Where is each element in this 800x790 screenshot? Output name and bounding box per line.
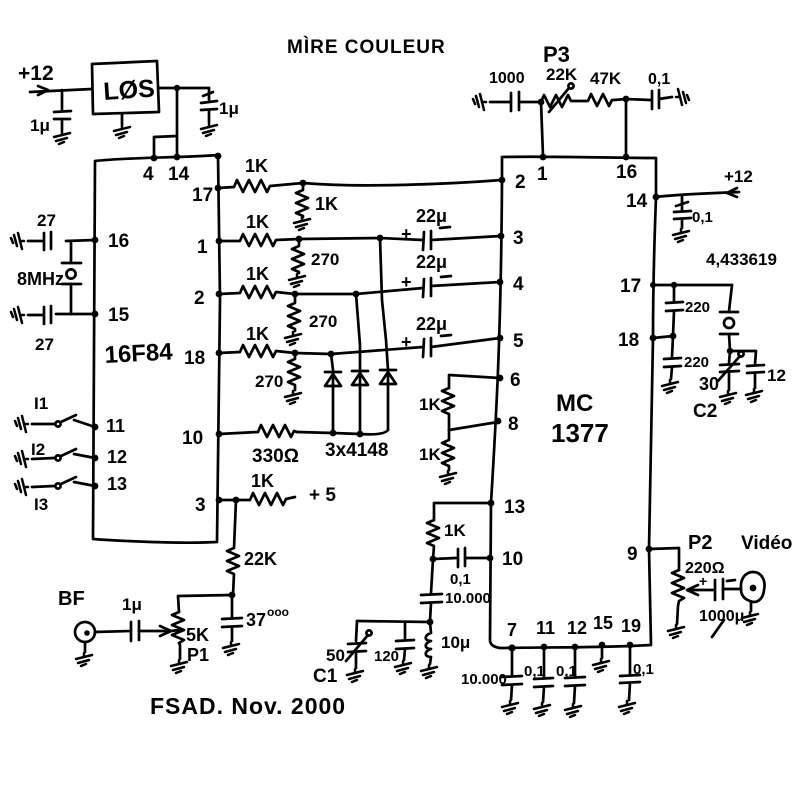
svg-text:12: 12 [567, 618, 587, 638]
wire row18 [295, 353, 331, 354]
resistor 270 vertical [288, 353, 300, 390]
crystal X1 8MHz [62, 262, 81, 265]
svg-text:10μ: 10μ [441, 633, 470, 652]
pin 14 [174, 154, 181, 161]
pin 15 [599, 642, 606, 649]
resistor 1K to +5 [236, 493, 295, 505]
svg-text:22μ: 22μ [416, 206, 447, 226]
node bottom [427, 619, 434, 626]
svg-text:120: 120 [374, 648, 399, 665]
svg-text:BF: BF [58, 588, 85, 610]
+12 input wire with arrow [30, 89, 92, 92]
svg-text:1K: 1K [444, 521, 466, 540]
svg-text:270: 270 [255, 372, 283, 391]
pin 1 [216, 238, 223, 245]
svg-text:17: 17 [192, 185, 213, 206]
svg-text:0,1: 0,1 [450, 571, 471, 588]
svg-text:1μ: 1μ [122, 595, 142, 614]
svg-text:8: 8 [508, 414, 519, 435]
svg-text:12: 12 [767, 366, 786, 385]
node row2 a [292, 291, 299, 298]
resistor 270 vertical [292, 239, 304, 273]
node top right corner [215, 153, 222, 160]
IC U3 MC1377 box [490, 157, 656, 648]
svg-text:9: 9 [627, 544, 638, 565]
capacitor 1u (output) [201, 88, 217, 122]
svg-text:27: 27 [35, 335, 54, 354]
pin 11 [92, 424, 99, 431]
capacitor 10.000 (pin7) [502, 648, 522, 700]
svg-text:11: 11 [106, 416, 125, 436]
node row2 b [353, 291, 360, 298]
node row18 b [328, 351, 335, 358]
svg-text:0,1: 0,1 [648, 71, 670, 88]
svg-text:1: 1 [197, 237, 208, 258]
svg-text:FSAD. Nov. 2000: FSAD. Nov. 2000 [150, 693, 346, 719]
svg-text:10: 10 [502, 549, 523, 570]
svg-text:I1: I1 [34, 394, 48, 413]
svg-text:+: + [699, 573, 707, 589]
svg-text:270: 270 [309, 312, 337, 331]
pin 2 [499, 177, 506, 184]
svg-text:7: 7 [507, 620, 517, 640]
svg-text:16F84: 16F84 [104, 338, 174, 369]
svg-text:+: + [401, 272, 412, 292]
pin 1 [540, 154, 547, 161]
resistor 1K (pin6) [442, 388, 454, 430]
svg-text:P2: P2 [688, 532, 712, 554]
node row1 a [296, 236, 303, 243]
wire to P1 [178, 595, 232, 612]
wire P3 to pin1 [541, 102, 543, 156]
svg-text:3x4148: 3x4148 [325, 440, 388, 461]
resistor 1K vertical to gnd [296, 183, 308, 217]
svg-text:16: 16 [616, 162, 637, 183]
svg-text:0,1: 0,1 [633, 661, 654, 678]
svg-text:22K: 22K [244, 549, 277, 569]
svg-text:12: 12 [107, 447, 127, 467]
pin 14 [653, 194, 660, 201]
node row1 b [377, 235, 384, 242]
capacitor 0,1 (P3) [626, 90, 672, 109]
wire pin6 [449, 375, 500, 388]
wire pin16 [66, 240, 95, 241]
svg-text:220: 220 [685, 299, 710, 316]
svg-text:1K: 1K [251, 471, 274, 491]
svg-text:ooo: ooo [267, 605, 289, 619]
pin 4 [151, 155, 158, 162]
svg-text:MC: MC [556, 390, 593, 417]
capacitor 0,1 (pin19) [620, 645, 640, 700]
node d1 bottom [330, 430, 337, 437]
svg-text:LØS: LØS [102, 74, 155, 106]
row pin1: resistor 1K [219, 234, 299, 246]
svg-text:+ 5: + 5 [309, 485, 336, 506]
svg-text:15: 15 [108, 305, 130, 326]
svg-text:5: 5 [513, 331, 524, 352]
label 4,433619 [706, 250, 777, 269]
pin 17 [650, 282, 656, 288]
ground (pin15) [601, 645, 604, 658]
ground (P3 right) [676, 89, 689, 105]
svg-text:0,1: 0,1 [524, 663, 545, 680]
svg-text:P3: P3 [543, 42, 570, 67]
svg-text:22K: 22K [546, 65, 578, 84]
regulator U2 L05 box [92, 61, 159, 114]
pin 11 [541, 644, 548, 651]
node pin18/220 [670, 333, 677, 340]
wire left from node [357, 621, 430, 622]
svg-text:4: 4 [513, 274, 524, 295]
wire pin10 row [219, 432, 258, 434]
potentiometer P1 5K [172, 612, 184, 659]
crystal X2 4,43 [720, 285, 738, 312]
node L05 out [174, 85, 180, 91]
capacitor 22u (pin5) [416, 314, 447, 334]
svg-text:8MHz: 8MHz [17, 269, 64, 289]
svg-text:1K: 1K [245, 156, 268, 176]
potentiometer P2 220 [672, 570, 684, 624]
node 22K bottom [229, 592, 236, 599]
svg-text:15: 15 [593, 613, 613, 633]
capacitor 1u (input) [54, 90, 71, 130]
svg-text:5K: 5K [186, 625, 209, 645]
wire P3 to pin16 [625, 99, 628, 157]
svg-text:13: 13 [504, 497, 525, 518]
ground (27p bottom) [11, 307, 24, 323]
resistor 270 vertical [288, 294, 300, 331]
svg-text:MÌRE COULEUR: MÌRE COULEUR [287, 36, 446, 58]
wire crystal top [70, 241, 73, 263]
ground (regulator) [121, 114, 124, 124]
svg-text:22μ: 22μ [416, 314, 447, 334]
BF connector [58, 588, 85, 610]
wiper arrow P2 [687, 585, 713, 595]
pin 13 [92, 483, 99, 490]
svg-text:1K: 1K [246, 264, 269, 284]
svg-text:270: 270 [311, 250, 339, 269]
pin 6 [497, 375, 504, 382]
svg-text:4,433619: 4,433619 [706, 250, 777, 269]
pin 17 [215, 185, 222, 192]
svg-text:14: 14 [626, 191, 648, 212]
pin 12 [92, 455, 99, 462]
wire pin14 +12 [656, 192, 739, 197]
wire pin9 [649, 548, 679, 570]
svg-text:1: 1 [537, 164, 548, 185]
pin 16 [623, 154, 630, 161]
wire to pin8 [449, 422, 498, 430]
svg-text:0,1: 0,1 [692, 209, 713, 226]
capacitor 0,1 (pin14) [674, 196, 691, 228]
svg-text:13: 13 [107, 474, 127, 494]
potentiometer P3 22K [541, 95, 576, 107]
svg-text:10.000: 10.000 [461, 671, 507, 688]
svg-text:1K: 1K [246, 324, 269, 344]
svg-text:2: 2 [515, 172, 526, 193]
svg-text:I2: I2 [31, 440, 45, 459]
row pin2: resistor 1K [219, 286, 295, 298]
capacitor 220 (upper) [666, 285, 683, 336]
svg-text:10.000: 10.000 [445, 590, 491, 607]
diode D3 4148 [380, 370, 396, 430]
capacitor 27p top [28, 232, 51, 250]
capacitor 12 [730, 351, 764, 388]
wire row1 [299, 238, 380, 239]
capacitor 37000 [222, 595, 242, 641]
svg-text:6: 6 [510, 370, 521, 391]
svg-text:1μ: 1μ [219, 99, 239, 118]
svg-text:19: 19 [621, 616, 641, 636]
pin 16 [92, 237, 99, 244]
svg-text:18: 18 [618, 330, 639, 351]
P3 section [543, 42, 570, 67]
svg-text:+12: +12 [18, 62, 54, 85]
svg-text:1377: 1377 [551, 418, 609, 448]
pin 19 [627, 642, 634, 649]
svg-text:50: 50 [326, 646, 345, 665]
wire arrow into P1 [139, 626, 171, 636]
node d2 bottom [357, 431, 364, 438]
resistor 22K vertical [227, 500, 239, 595]
capacitor 0,1 (pin10) [433, 548, 490, 567]
resistor 1K (pin8) to gnd [442, 430, 454, 470]
svg-text:1K: 1K [315, 194, 338, 214]
wire row2 [295, 293, 356, 296]
vertical wire row18 to diode1 [331, 354, 333, 370]
pin 3 [498, 233, 505, 240]
capacitor 1000 [511, 92, 541, 111]
wire pin17 [653, 284, 732, 287]
svg-text:37: 37 [246, 610, 266, 630]
svg-text:3: 3 [513, 228, 524, 249]
wire to pins 4/14 [176, 88, 179, 157]
capacitor 1u (BF) [95, 621, 139, 641]
+12 input label [18, 62, 54, 85]
resistor 1K (pin13) [427, 520, 439, 559]
capacitor 0,1 (pin12) [565, 647, 585, 703]
svg-text:30: 30 [699, 374, 719, 394]
node P3 left [538, 99, 545, 106]
node 1K/0,1 [430, 556, 437, 563]
row pin18: resistor 1K [219, 345, 295, 357]
IC U1 16F84 box [93, 155, 220, 543]
capacitor 1000u [699, 573, 707, 589]
svg-text:4: 4 [143, 164, 154, 185]
node row17 [300, 180, 307, 187]
svg-text:P1: P1 [187, 645, 209, 665]
diode D1 4148 [325, 372, 341, 433]
svg-text:+: + [401, 332, 412, 352]
video connector [741, 533, 792, 554]
svg-text:1000: 1000 [489, 70, 525, 87]
capacitor 120 [396, 622, 414, 660]
switch I1 [34, 394, 48, 413]
pin 7 [508, 644, 515, 651]
svg-text:18: 18 [184, 348, 205, 369]
svg-text:+12: +12 [724, 167, 753, 186]
svg-text:11: 11 [536, 618, 555, 638]
wire L05 output [159, 87, 209, 90]
svg-text:47K: 47K [590, 69, 622, 88]
svg-text:C1: C1 [313, 666, 338, 687]
pin 18 [216, 350, 223, 357]
svg-text:Vidéo: Vidéo [741, 533, 792, 554]
signature [150, 693, 346, 719]
svg-text:+: + [401, 224, 412, 244]
svg-text:17: 17 [620, 276, 641, 297]
svg-text:220: 220 [684, 354, 709, 371]
svg-text:1K: 1K [419, 445, 441, 464]
node crystal bottom [727, 348, 733, 354]
svg-text:1K: 1K [419, 395, 441, 414]
pin 8 [495, 418, 502, 425]
capacitor 10.000 [421, 559, 442, 621]
trimmer 30 (C2) [720, 351, 739, 390]
capacitor 22u (pin3) [416, 206, 447, 226]
ground (1000 cap left) [473, 94, 486, 110]
svg-text:C2: C2 [693, 401, 717, 422]
node P3 right [623, 96, 630, 103]
capacitor 220 (lower) [664, 336, 681, 379]
vertical wire row1 to diode3 [380, 238, 388, 370]
capacitor 0,1 (pin11) [534, 647, 553, 702]
svg-text:10: 10 [182, 428, 203, 449]
pin 3 [216, 497, 223, 504]
svg-text:1K: 1K [246, 212, 269, 232]
diode D2 4148 [352, 371, 368, 434]
ground (input cap) [54, 131, 70, 144]
svg-text:3: 3 [195, 495, 206, 516]
trimmer C1 50p [348, 621, 366, 668]
switch I2 [31, 440, 45, 459]
resistor 330 [258, 425, 297, 437]
switch I3 [34, 495, 48, 514]
ground (output cap) [201, 123, 217, 136]
pin 15 [92, 311, 99, 318]
node row18 a [292, 350, 299, 357]
resistor 47K [576, 94, 626, 106]
pin 9 [646, 546, 653, 553]
svg-text:1μ: 1μ [30, 116, 50, 135]
pin 18 [650, 335, 657, 342]
svg-text:14: 14 [168, 164, 190, 185]
svg-text:22μ: 22μ [416, 252, 447, 272]
pin 10 [487, 555, 494, 562]
pin 2 [216, 291, 223, 298]
wire pin3 row [219, 499, 236, 502]
node pin3 [233, 497, 240, 504]
vertical wire row2 to diode2 [356, 294, 360, 370]
pin 10 [216, 431, 223, 438]
row pin17: resistor 1K [218, 180, 303, 192]
svg-text:I3: I3 [34, 495, 48, 514]
pin 4 [497, 279, 504, 286]
svg-text:27: 27 [37, 211, 56, 230]
wire pin15 [56, 313, 95, 316]
ground (27p top) [11, 233, 24, 249]
capacitor 27p bottom [28, 306, 51, 324]
pin 5 [497, 335, 504, 342]
wire pin13 [434, 503, 491, 520]
pin 13 [488, 500, 495, 507]
title MIRE COULEUR [287, 36, 446, 58]
svg-text:0,1: 0,1 [556, 663, 577, 680]
electrolytic 10u [426, 622, 431, 664]
svg-text:16: 16 [108, 231, 129, 252]
pin 12 [572, 644, 579, 651]
svg-text:2: 2 [194, 288, 205, 309]
svg-text:330Ω: 330Ω [252, 446, 299, 467]
capacitor 22u (pin4) [416, 252, 447, 272]
wire row17 to MC pin2 [303, 180, 502, 185]
node 220a [671, 282, 677, 288]
